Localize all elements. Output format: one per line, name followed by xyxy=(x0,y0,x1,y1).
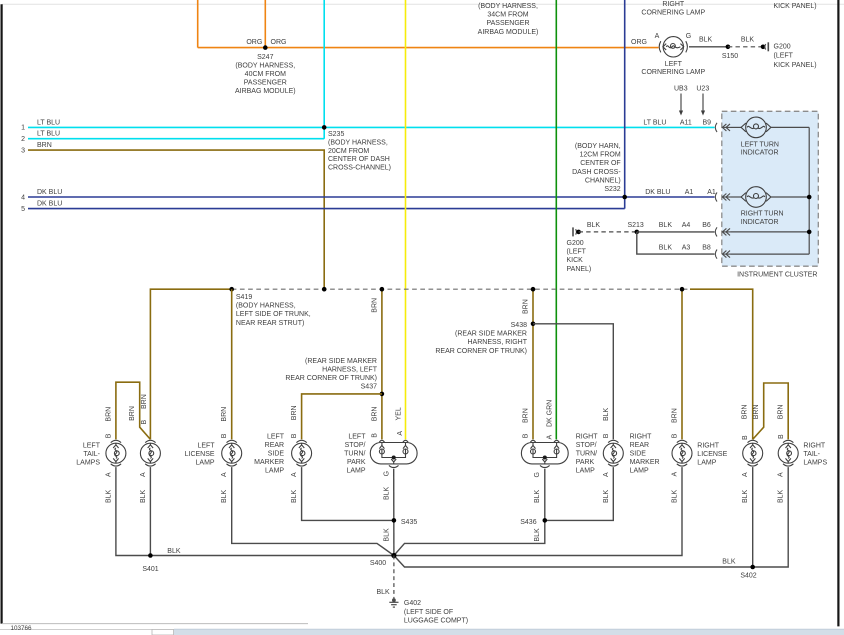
svg-text:RIGHT: RIGHT xyxy=(803,442,826,449)
wire BLK left rear side marker ground xyxy=(302,467,394,520)
splice S232 xyxy=(622,195,627,200)
lamp right turn indicator xyxy=(741,187,771,208)
svg-text:B: B xyxy=(672,433,679,438)
svg-text:BRN: BRN xyxy=(753,405,760,420)
svg-text:A: A xyxy=(672,472,679,477)
wire DK BLU vertical into line 5 xyxy=(624,0,626,209)
svg-text:G: G xyxy=(686,33,691,40)
junction line3 at harness xyxy=(322,287,327,292)
svg-text:G200: G200 xyxy=(774,43,791,50)
svg-text:A11: A11 xyxy=(680,119,692,126)
svg-text:(BODY HARNESS,: (BODY HARNESS, xyxy=(478,3,538,10)
splice S419 xyxy=(229,287,234,292)
wire 4 DK BLU to instrument cluster xyxy=(28,196,715,198)
svg-text:BLK: BLK xyxy=(603,489,610,503)
svg-text:ORG: ORG xyxy=(246,39,262,46)
svg-text:BLK: BLK xyxy=(777,489,784,503)
svg-text:LAMP: LAMP xyxy=(630,468,649,475)
svg-text:B: B xyxy=(105,433,112,438)
lamp left turn indicator xyxy=(741,117,771,138)
svg-text:INDICATOR: INDICATOR xyxy=(741,150,779,157)
wire BLK right rear side marker ground xyxy=(545,467,614,520)
svg-text:LEFT TURN: LEFT TURN xyxy=(741,141,779,148)
wire BLK left stop lamp ground through S435 xyxy=(393,469,395,556)
svg-text:A: A xyxy=(397,431,404,436)
svg-text:34CM FROM: 34CM FROM xyxy=(487,12,528,19)
svg-text:S235: S235 xyxy=(328,131,344,138)
wire cluster common return xyxy=(808,127,810,254)
svg-text:BLK: BLK xyxy=(741,36,755,43)
wire BRN right license lamp feed xyxy=(681,289,683,439)
svg-text:BRN: BRN xyxy=(105,407,112,422)
svg-text:STOP/: STOP/ xyxy=(345,442,366,449)
svg-text:HARNESS, LEFT: HARNESS, LEFT xyxy=(322,366,378,373)
svg-text:RIGHT: RIGHT xyxy=(697,442,720,449)
svg-text:G200: G200 xyxy=(567,240,584,247)
lamp left tail bulb 2 xyxy=(140,440,160,466)
svg-text:1: 1 xyxy=(21,125,25,132)
lamp right license xyxy=(672,440,692,466)
wire BRN jumper right tail bulbs xyxy=(753,383,789,439)
svg-text:S435: S435 xyxy=(401,519,417,526)
svg-text:B6: B6 xyxy=(702,222,711,229)
svg-text:BLK: BLK xyxy=(534,528,541,542)
wire BLK left tail bulb 1 ground xyxy=(116,467,394,555)
svg-text:LT BLU: LT BLU xyxy=(37,131,60,138)
svg-text:BLK: BLK xyxy=(221,489,228,503)
svg-text:INDICATOR: INDICATOR xyxy=(741,219,779,226)
svg-text:40CM FROM: 40CM FROM xyxy=(245,71,286,78)
svg-text:LAMP: LAMP xyxy=(196,460,215,467)
wire cluster row 4 xyxy=(731,253,810,255)
svg-text:B: B xyxy=(371,433,378,438)
svg-text:A1: A1 xyxy=(707,189,716,196)
svg-text:BRN: BRN xyxy=(37,142,52,149)
scrollbar left track xyxy=(0,628,152,630)
connector entry row 4 xyxy=(715,250,730,259)
svg-text:STOP/: STOP/ xyxy=(576,442,597,449)
junction on common at row 2 xyxy=(807,195,812,200)
svg-text:A1: A1 xyxy=(685,189,694,196)
svg-text:B: B xyxy=(603,433,610,438)
splice S435 xyxy=(392,518,397,523)
wire 3 BRN to rear harness xyxy=(28,150,324,289)
svg-text:CHANNEL): CHANNEL) xyxy=(585,177,621,184)
wire BLK right tail lamps ground run to S400 xyxy=(394,467,788,567)
svg-text:A: A xyxy=(777,472,784,477)
svg-text:G402: G402 xyxy=(404,600,421,607)
svg-text:BLK: BLK xyxy=(291,489,298,503)
svg-text:A: A xyxy=(742,472,749,477)
wire 1 LT BLU to instrument cluster xyxy=(28,126,715,128)
svg-text:BLK: BLK xyxy=(383,486,390,500)
wire BLK left tail bulb 2 ground xyxy=(149,467,151,555)
svg-text:BRN: BRN xyxy=(221,407,228,422)
svg-text:LICENSE: LICENSE xyxy=(185,451,215,458)
junction at harness for S437 xyxy=(380,287,385,292)
svg-text:BRN: BRN xyxy=(371,407,378,422)
wire left turn indicator to common xyxy=(771,126,810,128)
wire rear harness dashed xyxy=(232,288,690,290)
svg-text:YEL: YEL xyxy=(396,407,403,420)
svg-text:DK BLU: DK BLU xyxy=(37,189,62,196)
connector entry row 2 xyxy=(715,192,730,201)
page right border xyxy=(837,0,839,626)
svg-text:DASH CROSS-: DASH CROSS- xyxy=(572,169,621,176)
svg-text:BLK: BLK xyxy=(659,222,673,229)
svg-text:BLK: BLK xyxy=(383,528,390,542)
splice S247 xyxy=(263,45,268,50)
svg-text:(REAR SIDE MARKER: (REAR SIDE MARKER xyxy=(455,331,527,338)
svg-text:BRN: BRN xyxy=(672,408,679,423)
svg-text:LEFT: LEFT xyxy=(665,61,683,68)
svg-text:ORG: ORG xyxy=(631,39,647,46)
svg-text:(LEFT: (LEFT xyxy=(567,249,587,256)
lamp left rear side marker xyxy=(292,440,312,466)
svg-text:S401: S401 xyxy=(142,566,158,573)
svg-text:BLK: BLK xyxy=(722,558,736,565)
svg-text:RIGHT: RIGHT xyxy=(576,434,599,441)
wire YEL vertical to left stop/turn/park lamp xyxy=(405,0,407,439)
svg-text:B: B xyxy=(778,434,785,439)
svg-text:LT BLU: LT BLU xyxy=(37,119,60,126)
wire BLK dashed S400 to G402 xyxy=(393,556,395,600)
svg-text:KICK PANEL): KICK PANEL) xyxy=(774,3,817,10)
lamp left stop/turn/park xyxy=(370,440,417,467)
svg-text:20CM FROM: 20CM FROM xyxy=(328,148,369,155)
svg-text:LAMPS: LAMPS xyxy=(76,460,100,467)
svg-text:BLK: BLK xyxy=(587,222,601,229)
svg-text:BLK: BLK xyxy=(534,489,541,503)
svg-text:4: 4 xyxy=(21,194,25,201)
svg-text:LEFT: LEFT xyxy=(83,442,101,449)
svg-text:S402: S402 xyxy=(740,573,756,580)
svg-text:SIDE: SIDE xyxy=(268,451,285,458)
svg-text:BRN: BRN xyxy=(291,405,298,420)
wire ORG vertical from airbag module harness xyxy=(197,0,199,48)
svg-text:HARNESS, RIGHT: HARNESS, RIGHT xyxy=(467,339,527,346)
svg-text:A: A xyxy=(140,472,147,477)
svg-text:LAMP: LAMP xyxy=(576,468,595,475)
splice S437 xyxy=(380,392,385,397)
wire BRN left license lamp feed xyxy=(231,289,233,439)
svg-text:ORG: ORG xyxy=(271,39,287,46)
svg-text:103766: 103766 xyxy=(11,625,33,632)
connector entry row 3 xyxy=(715,227,730,236)
svg-text:B: B xyxy=(221,433,228,438)
ground G402 xyxy=(392,598,396,602)
wire 2 LT BLU to splice S235 xyxy=(28,138,324,140)
wire BRN left tail lamps feed xyxy=(150,289,231,439)
svg-text:LT BLU: LT BLU xyxy=(643,119,666,126)
wire DK GRN vertical to right stop/turn/park lamp xyxy=(555,0,557,439)
svg-text:REAR CORNER OF TRUNK): REAR CORNER OF TRUNK) xyxy=(435,348,527,355)
svg-text:TURN/: TURN/ xyxy=(576,451,597,458)
svg-text:S232: S232 xyxy=(604,186,620,193)
svg-text:BLK: BLK xyxy=(105,489,112,503)
wire BRN left rear side marker feed xyxy=(302,394,382,440)
svg-text:S419: S419 xyxy=(236,294,252,301)
wire BRN jumper left tail bulbs xyxy=(116,382,150,439)
svg-text:BRN: BRN xyxy=(742,405,749,420)
svg-text:S213: S213 xyxy=(627,222,643,229)
ground G200 connector at kick panel xyxy=(761,45,766,50)
scrollbar thumb xyxy=(152,629,174,635)
wire to left turn indicator xyxy=(731,126,742,128)
svg-text:MARKER: MARKER xyxy=(254,459,284,466)
splice S438 xyxy=(531,322,536,327)
wire ORG horizontal to left cornering lamp xyxy=(198,47,659,49)
wire LT BLU vertical into splice S235 xyxy=(323,0,325,139)
junction at harness for S438 xyxy=(531,287,536,292)
lamp right rear side marker xyxy=(603,440,623,466)
svg-text:DK BLU: DK BLU xyxy=(37,201,62,208)
svg-text:A: A xyxy=(221,472,228,477)
svg-text:CENTER OF: CENTER OF xyxy=(580,160,620,167)
svg-text:LUGGAGE COMPT): LUGGAGE COMPT) xyxy=(404,617,468,624)
wire BLK right stop lamp ground through S436 xyxy=(394,469,545,556)
lamp left tail bulb 1 xyxy=(106,440,126,466)
lamp left license xyxy=(222,440,242,466)
wire BLK S213 to cluster A4 xyxy=(637,231,715,233)
scrollbar trough xyxy=(174,629,844,635)
svg-text:PARK: PARK xyxy=(347,459,366,466)
junction at harness for right license xyxy=(680,287,685,292)
svg-text:BLK: BLK xyxy=(659,245,673,252)
svg-text:PASSENGER: PASSENGER xyxy=(244,80,287,87)
svg-text:(BODY HARNESS,: (BODY HARNESS, xyxy=(235,62,295,69)
svg-text:LICENSE: LICENSE xyxy=(697,451,727,458)
svg-text:S400: S400 xyxy=(370,560,386,567)
svg-text:A: A xyxy=(655,33,660,40)
svg-text:LEFT: LEFT xyxy=(267,434,285,441)
svg-text:3: 3 xyxy=(21,147,25,154)
svg-text:AIRBAG MODULE): AIRBAG MODULE) xyxy=(235,88,296,95)
svg-text:5: 5 xyxy=(21,206,25,213)
wire BLK right rear side marker feed xyxy=(533,324,613,440)
svg-text:CENTER OF DASH: CENTER OF DASH xyxy=(328,156,390,163)
svg-text:B8: B8 xyxy=(702,245,711,252)
splice S436 xyxy=(543,518,548,523)
svg-text:INSTRUMENT CLUSTER: INSTRUMENT CLUSTER xyxy=(737,271,817,278)
wire BLK left license ground xyxy=(232,467,394,555)
svg-text:UB3: UB3 xyxy=(674,86,688,93)
instrument cluster box xyxy=(722,111,819,266)
wire BLK dashed S150 to G200 xyxy=(728,46,763,48)
svg-text:S437: S437 xyxy=(361,384,377,391)
lamp left cornering xyxy=(659,37,687,57)
ground G200 connector at left kick panel xyxy=(573,227,577,236)
svg-text:B: B xyxy=(742,435,749,440)
svg-text:U23: U23 xyxy=(696,86,709,93)
svg-text:BLK: BLK xyxy=(603,407,610,421)
lamp right tail bulb 1 xyxy=(743,440,763,466)
svg-text:LAMP: LAMP xyxy=(265,468,284,475)
svg-text:LAMPS: LAMPS xyxy=(803,460,827,467)
wire BLK right license ground xyxy=(394,467,682,555)
svg-text:NEAR REAR STRUT): NEAR REAR STRUT) xyxy=(236,320,304,327)
splice S235 xyxy=(322,125,327,130)
svg-text:BRN: BRN xyxy=(371,298,378,313)
svg-text:A4: A4 xyxy=(682,222,691,229)
splice S401 xyxy=(148,553,153,558)
svg-text:LEFT SIDE OF TRUNK,: LEFT SIDE OF TRUNK, xyxy=(236,311,311,318)
wire 5 DK BLU to splice S232 xyxy=(28,208,625,210)
svg-text:BLK: BLK xyxy=(742,489,749,503)
wire BRN to splice S437 xyxy=(381,289,383,439)
svg-text:AIRBAG MODULE): AIRBAG MODULE) xyxy=(478,29,539,36)
svg-text:LEFT: LEFT xyxy=(197,442,215,449)
svg-text:LEFT: LEFT xyxy=(348,434,366,441)
svg-text:LAMP: LAMP xyxy=(697,460,716,467)
svg-text:RIGHT: RIGHT xyxy=(662,1,685,8)
svg-text:A: A xyxy=(105,472,112,477)
svg-text:(REAR SIDE MARKER: (REAR SIDE MARKER xyxy=(305,358,377,365)
svg-text:B: B xyxy=(291,433,298,438)
svg-text:BRN: BRN xyxy=(523,299,530,314)
page bottom border xyxy=(2,623,308,625)
wire BLK S213 to cluster A3 xyxy=(637,232,715,254)
svg-text:REAR: REAR xyxy=(265,442,284,449)
wire right turn indicator to common xyxy=(771,196,810,198)
svg-text:RIGHT TURN: RIGHT TURN xyxy=(741,211,784,218)
splice S213 xyxy=(635,230,640,235)
connector entry row 1 xyxy=(715,123,730,132)
svg-text:S438: S438 xyxy=(511,322,527,329)
page left border xyxy=(1,4,3,623)
wire BRN to splice S438 and right stop lamp xyxy=(532,289,534,439)
wire ORG vertical into splice S247 xyxy=(264,0,266,48)
splice S400 xyxy=(391,553,396,558)
svg-text:A: A xyxy=(291,472,298,477)
svg-text:SIDE: SIDE xyxy=(630,451,647,458)
junction on common at row 3 xyxy=(807,230,812,235)
svg-text:LAMP: LAMP xyxy=(346,468,365,475)
svg-text:B: B xyxy=(523,433,530,438)
svg-text:A: A xyxy=(546,435,553,440)
svg-text:A: A xyxy=(603,472,610,477)
svg-text:BRN: BRN xyxy=(141,394,148,409)
svg-text:BLK: BLK xyxy=(167,548,181,555)
lamp right stop/turn/park xyxy=(521,440,568,467)
svg-text:KICK: KICK xyxy=(567,257,584,264)
svg-text:(LEFT: (LEFT xyxy=(774,53,794,60)
svg-text:PARK: PARK xyxy=(576,459,595,466)
wire BLK right tail bulb 1 ground xyxy=(752,467,754,567)
svg-text:(BODY HARNESS,: (BODY HARNESS, xyxy=(328,139,388,146)
svg-text:G: G xyxy=(534,472,541,477)
svg-text:DK BLU: DK BLU xyxy=(645,189,670,196)
wire BLK cornering lamp to S150 xyxy=(689,46,728,48)
splice S402 xyxy=(750,565,755,570)
svg-text:BRN: BRN xyxy=(523,408,530,423)
svg-text:PASSENGER: PASSENGER xyxy=(486,20,529,27)
svg-text:PANEL): PANEL) xyxy=(567,266,592,273)
svg-text:REAR: REAR xyxy=(630,442,649,449)
wire cluster row 3 xyxy=(731,231,810,233)
svg-text:TURN/: TURN/ xyxy=(344,451,365,458)
wire BLK dashed G200 to S213 xyxy=(579,231,637,233)
svg-text:KICK PANEL): KICK PANEL) xyxy=(774,62,817,69)
svg-text:BLK: BLK xyxy=(672,489,679,503)
svg-text:BRN: BRN xyxy=(129,406,136,421)
svg-text:DK GRN: DK GRN xyxy=(546,400,553,427)
svg-text:TAIL-: TAIL- xyxy=(803,451,820,458)
svg-text:REAR CORNER OF TRUNK): REAR CORNER OF TRUNK) xyxy=(285,375,377,382)
wire BRN right tail lamps feed xyxy=(690,289,753,439)
svg-text:CORNERING LAMP: CORNERING LAMP xyxy=(641,9,705,16)
svg-text:(BODY HARN,: (BODY HARN, xyxy=(575,143,621,150)
svg-text:RIGHT: RIGHT xyxy=(630,434,653,441)
svg-text:BLK: BLK xyxy=(376,589,390,596)
svg-text:S247: S247 xyxy=(257,54,273,61)
svg-text:B: B xyxy=(141,420,148,425)
svg-text:S436: S436 xyxy=(520,519,536,526)
svg-text:12CM FROM: 12CM FROM xyxy=(579,152,620,159)
page top border xyxy=(2,3,844,5)
svg-text:2: 2 xyxy=(21,136,25,143)
svg-text:S150: S150 xyxy=(722,53,738,60)
svg-text:BLK: BLK xyxy=(699,36,713,43)
svg-text:MARKER: MARKER xyxy=(630,459,660,466)
lamp right tail bulb 2 xyxy=(778,440,798,466)
svg-text:CORNERING LAMP: CORNERING LAMP xyxy=(641,69,705,76)
svg-text:CROSS-CHANNEL): CROSS-CHANNEL) xyxy=(328,165,391,172)
svg-text:BLK: BLK xyxy=(140,489,147,503)
svg-text:B9: B9 xyxy=(703,119,712,126)
svg-text:G: G xyxy=(383,471,390,476)
svg-text:(LEFT SIDE OF: (LEFT SIDE OF xyxy=(404,609,453,616)
svg-text:(BODY HARNESS,: (BODY HARNESS, xyxy=(236,303,296,310)
svg-text:TAIL-: TAIL- xyxy=(83,451,100,458)
wire to right turn indicator xyxy=(731,196,742,198)
svg-text:A3: A3 xyxy=(682,245,691,252)
svg-text:BRN: BRN xyxy=(778,405,785,420)
splice S150 xyxy=(726,45,731,50)
